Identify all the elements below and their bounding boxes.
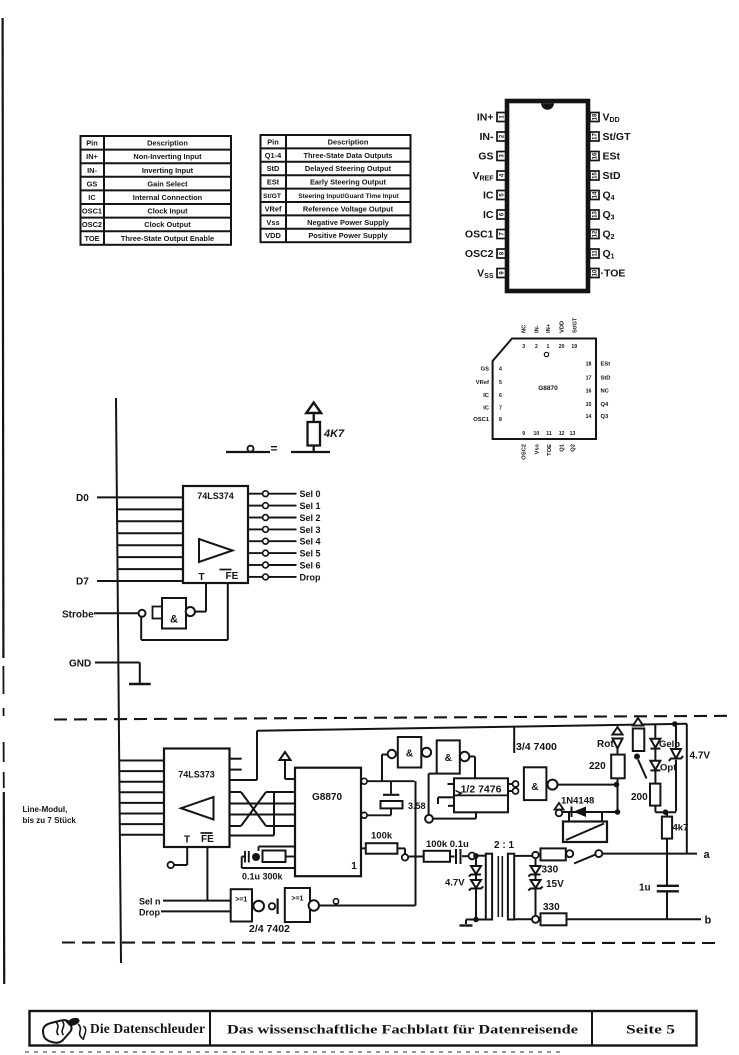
svg-text:Q3: Q3	[601, 414, 610, 420]
svg-text:3: 3	[522, 344, 525, 350]
svg-text:Q2: Q2	[603, 229, 615, 242]
svg-text:&: &	[170, 614, 178, 626]
svg-text:Q2: Q2	[571, 444, 577, 452]
svg-text:15: 15	[586, 402, 592, 408]
svg-text:4: 4	[500, 173, 506, 177]
svg-text:T: T	[184, 835, 190, 846]
svg-text:G8870: G8870	[538, 385, 558, 392]
svg-text:&: &	[406, 749, 413, 760]
svg-text:Internal Connection: Internal Connection	[133, 193, 203, 202]
svg-text:Opt: Opt	[660, 763, 677, 774]
svg-text:220: 220	[589, 761, 606, 772]
svg-text:4k7: 4k7	[673, 823, 689, 834]
svg-text:VRef: VRef	[265, 204, 282, 213]
svg-text:Description: Description	[328, 137, 369, 146]
svg-text:GS: GS	[87, 179, 98, 188]
svg-text:4: 4	[499, 367, 502, 373]
svg-text:74LS373: 74LS373	[178, 770, 215, 780]
svg-text:3/4 7400: 3/4 7400	[516, 741, 557, 753]
svg-text:18: 18	[593, 113, 599, 120]
svg-text:12: 12	[593, 230, 599, 237]
svg-text:&: &	[531, 782, 538, 793]
svg-text:Clock Output: Clock Output	[144, 220, 191, 229]
svg-text:D7: D7	[76, 577, 89, 588]
svg-text:1u: 1u	[639, 883, 651, 894]
svg-text:Sel 5: Sel 5	[300, 549, 321, 559]
svg-text:11: 11	[593, 250, 599, 257]
svg-text:3.58: 3.58	[408, 801, 426, 811]
svg-text:ESt: ESt	[603, 151, 621, 163]
svg-text:a: a	[704, 849, 711, 861]
svg-text:15: 15	[593, 172, 599, 179]
svg-text:OSC2: OSC2	[82, 220, 102, 229]
svg-text:Drop: Drop	[139, 908, 160, 918]
svg-text:OSC1: OSC1	[465, 229, 494, 241]
svg-text:TOE: TOE	[547, 444, 553, 456]
svg-text:StD: StD	[601, 376, 611, 382]
svg-text:IC: IC	[483, 406, 490, 412]
svg-text:Pin: Pin	[267, 137, 279, 146]
svg-text:Q1-4: Q1-4	[265, 151, 282, 160]
svg-text:IN-: IN-	[87, 166, 97, 175]
svg-text:VDD: VDD	[560, 321, 566, 333]
svg-text:10: 10	[534, 431, 540, 437]
svg-text:GS: GS	[478, 151, 493, 163]
svg-text:IN+: IN+	[546, 323, 552, 333]
svg-text:St/GT: St/GT	[572, 317, 578, 333]
svg-text:16: 16	[586, 389, 592, 395]
svg-text:2/4 7402: 2/4 7402	[249, 923, 290, 935]
svg-text:11: 11	[546, 431, 552, 437]
svg-text:Delayed Steering Output: Delayed Steering Output	[305, 164, 392, 173]
svg-text:5: 5	[500, 193, 506, 197]
svg-text:FE: FE	[201, 834, 214, 845]
svg-text:18: 18	[586, 362, 592, 368]
svg-text:Sel 1: Sel 1	[300, 501, 321, 511]
svg-text:Negative Power Supply: Negative Power Supply	[307, 218, 390, 227]
svg-text:100k 0.1u: 100k 0.1u	[426, 839, 469, 850]
svg-text:1: 1	[546, 344, 549, 350]
svg-text:Q4: Q4	[603, 190, 615, 203]
svg-text:NC: NC	[601, 389, 610, 395]
svg-text:G8870: G8870	[312, 792, 342, 803]
svg-text:Q1: Q1	[603, 248, 615, 261]
svg-text:2: 2	[500, 134, 506, 138]
svg-text:IC: IC	[88, 193, 96, 202]
svg-text:Non-Inverting Input: Non-Inverting Input	[133, 152, 202, 161]
svg-text:Rot: Rot	[597, 739, 614, 750]
svg-text:Positive Power Supply: Positive Power Supply	[308, 231, 388, 240]
svg-text:IN-: IN-	[480, 131, 495, 143]
svg-text:OSC2: OSC2	[522, 444, 528, 460]
svg-text:Early Steering Output: Early Steering Output	[310, 178, 387, 187]
svg-text:Gain Select: Gain Select	[147, 179, 188, 188]
svg-text:ESt: ESt	[267, 178, 280, 187]
svg-text:Das wissenschaftliche Fachblat: Das wissenschaftliche Fachblatt für Date…	[227, 1023, 578, 1037]
svg-text:GS: GS	[481, 367, 490, 373]
svg-text:2: 2	[535, 344, 538, 350]
svg-text:Clock Input: Clock Input	[147, 207, 188, 216]
svg-text:NC: NC	[522, 324, 528, 333]
svg-text:16: 16	[593, 152, 599, 159]
svg-text:Sel 0: Sel 0	[300, 489, 321, 499]
svg-text:IC: IC	[483, 190, 494, 202]
svg-text:Seite 5: Seite 5	[626, 1022, 676, 1037]
svg-text:FE: FE	[226, 571, 239, 582]
svg-text:VSS: VSS	[477, 268, 494, 281]
svg-text:IN+: IN+	[86, 152, 98, 161]
svg-text:Die Datenschleuder: Die Datenschleuder	[90, 1021, 205, 1036]
svg-text:1/2 7476: 1/2 7476	[461, 784, 502, 796]
svg-text:Reference Voltage Output: Reference Voltage Output	[303, 204, 394, 213]
svg-text:Steering Input/Guard Time Inpu: Steering Input/Guard Time Input	[298, 193, 399, 200]
svg-text:D0: D0	[76, 493, 89, 504]
svg-text:5: 5	[499, 380, 502, 386]
svg-text:Line-Modul,: Line-Modul,	[23, 805, 68, 814]
svg-text:>=1: >=1	[291, 896, 303, 903]
svg-text:8: 8	[499, 417, 502, 423]
svg-text:GND: GND	[69, 659, 91, 670]
svg-text:IN-: IN-	[534, 325, 540, 333]
svg-text:Vss: Vss	[534, 444, 540, 454]
svg-text:StD: StD	[267, 164, 280, 173]
svg-text:VDD: VDD	[603, 112, 620, 125]
svg-text:17: 17	[593, 133, 599, 140]
svg-text:OSC1: OSC1	[82, 207, 102, 216]
svg-text:8: 8	[500, 251, 506, 255]
svg-text:6: 6	[499, 393, 502, 399]
svg-text:Sel 2: Sel 2	[300, 513, 321, 523]
svg-text:Sel 4: Sel 4	[300, 537, 321, 547]
svg-text:OSC2: OSC2	[465, 248, 494, 260]
svg-text:330: 330	[542, 865, 559, 876]
svg-text:b: b	[705, 915, 712, 927]
svg-text:OSC1: OSC1	[473, 417, 490, 423]
svg-text:13: 13	[593, 211, 599, 218]
svg-text:VRef: VRef	[476, 380, 489, 386]
svg-text:St/GT: St/GT	[603, 131, 632, 143]
svg-text:9: 9	[522, 431, 525, 437]
svg-text:St/GT: St/GT	[263, 193, 282, 200]
svg-text:VDD: VDD	[265, 231, 281, 240]
svg-text:13: 13	[570, 431, 576, 437]
svg-text:&: &	[445, 753, 452, 764]
svg-text:Q3: Q3	[603, 209, 615, 222]
svg-text:9: 9	[500, 271, 506, 275]
svg-text:12: 12	[559, 431, 565, 437]
svg-text:Drop: Drop	[300, 572, 321, 582]
svg-text:Q1: Q1	[560, 443, 566, 452]
svg-text:15V: 15V	[546, 879, 564, 890]
svg-text:20: 20	[559, 344, 565, 350]
svg-text:17: 17	[586, 376, 592, 382]
svg-text:IC: IC	[483, 209, 494, 221]
svg-text:Inverting Input: Inverting Input	[142, 166, 194, 175]
svg-text:74LS374: 74LS374	[197, 491, 234, 501]
svg-text:7: 7	[499, 406, 502, 412]
svg-text:4K7: 4K7	[323, 428, 345, 440]
svg-text:VREF: VREF	[472, 170, 494, 183]
svg-text:1N4148: 1N4148	[561, 796, 594, 807]
svg-text:330: 330	[543, 902, 560, 913]
svg-text:Pin: Pin	[86, 139, 98, 148]
svg-text:Sel 6: Sel 6	[300, 561, 321, 571]
svg-text:Three-State Data Outputs: Three-State Data Outputs	[303, 151, 392, 160]
svg-text:2 : 1: 2 : 1	[494, 840, 514, 851]
svg-text:14: 14	[586, 414, 592, 420]
svg-text:100k: 100k	[371, 831, 393, 842]
svg-text:ESt: ESt	[601, 362, 611, 368]
svg-text:Sel 3: Sel 3	[300, 525, 321, 535]
svg-text:IN+: IN+	[477, 112, 494, 124]
svg-text:1: 1	[351, 861, 357, 872]
svg-text:Vss: Vss	[266, 218, 279, 227]
svg-text:bis zu 7 Stück: bis zu 7 Stück	[23, 816, 77, 825]
svg-text:TOE: TOE	[84, 234, 99, 243]
svg-text:Three-State Output Enable: Three-State Output Enable	[121, 234, 214, 243]
svg-text:7: 7	[500, 232, 506, 236]
svg-text:>=1: >=1	[235, 897, 247, 904]
svg-text:=: =	[271, 442, 278, 456]
svg-text:6: 6	[500, 212, 506, 216]
svg-text:0.1u 300k: 0.1u 300k	[242, 872, 284, 882]
svg-text:4.7V: 4.7V	[690, 751, 711, 762]
svg-text:1: 1	[500, 115, 506, 119]
svg-text:Strobe: Strobe	[62, 610, 94, 621]
svg-text:14: 14	[593, 191, 599, 198]
svg-text:4.7V: 4.7V	[445, 878, 465, 889]
svg-text:200: 200	[631, 792, 648, 803]
svg-text:T: T	[198, 572, 204, 583]
svg-text:IC: IC	[483, 393, 490, 399]
svg-text:19: 19	[571, 344, 577, 350]
svg-text:10: 10	[593, 269, 599, 276]
svg-text:·TOE: ·TOE	[601, 268, 626, 280]
svg-text:Sel n: Sel n	[139, 897, 161, 907]
svg-text:Q4: Q4	[601, 402, 610, 408]
svg-text:3: 3	[500, 154, 506, 158]
svg-text:Description: Description	[147, 139, 188, 148]
svg-text:StD: StD	[603, 170, 622, 182]
